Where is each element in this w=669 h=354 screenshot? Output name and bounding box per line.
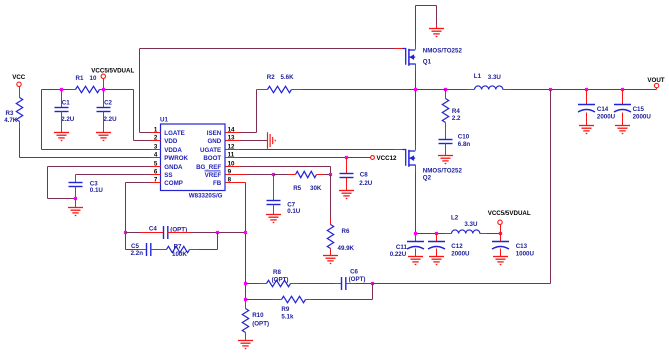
svg-text:C8: C8 — [360, 172, 368, 179]
Q1 drain wire to ground — [416, 6, 437, 50]
C3 ground lead — [75, 199, 77, 208]
svg-text:C15: C15 — [633, 106, 645, 113]
capacitor C6 (OPT) — [342, 277, 346, 290]
R2 value 5.6K — [281, 74, 295, 81]
U1 pin name ISEN — [207, 130, 222, 137]
U1 pin name FB — [213, 180, 222, 187]
C14 designator — [597, 106, 609, 113]
resistor R2 5.6K — [268, 86, 292, 92]
svg-text:5.1k: 5.1k — [281, 313, 294, 320]
junction C12 tap — [435, 232, 438, 235]
svg-text:R1: R1 — [76, 75, 84, 82]
node VCC5/5VDUAL label — [91, 68, 134, 75]
R9 designator — [281, 306, 289, 313]
svg-text:BOOT: BOOT — [203, 155, 221, 162]
R2 designator — [267, 74, 275, 81]
svg-text:VREF: VREF — [205, 172, 222, 179]
wire pin12 UGATE to Q2 gate — [241, 149, 403, 151]
C12 bottom lead — [436, 249, 438, 257]
terminal VCC5/5VDUAL — [101, 74, 105, 78]
capacitor C8 2.2U — [340, 174, 354, 178]
C2 top lead — [103, 90, 105, 108]
capacitor C4 (OPT) — [164, 226, 168, 239]
R6 value 49.9K — [338, 245, 355, 252]
svg-text:L1: L1 — [474, 73, 482, 80]
svg-text:LGATE: LGATE — [164, 130, 185, 137]
C6 designator — [350, 269, 358, 276]
wire pin13 GND — [241, 140, 268, 142]
node VCC5/5VDUAL bottom label — [488, 210, 531, 217]
ground C1 — [54, 133, 69, 141]
svg-text:C10: C10 — [458, 134, 470, 141]
C3 designator — [90, 180, 98, 187]
U1 pin number 8 — [228, 177, 232, 184]
svg-text:R6: R6 — [342, 228, 350, 235]
U1 right pin stubs 14-8 — [226, 133, 241, 183]
C15 designator — [633, 106, 645, 113]
svg-text:R3: R3 — [6, 110, 14, 117]
ground C11 — [408, 257, 423, 265]
svg-text:49.9K: 49.9K — [338, 245, 355, 252]
U1 reference designator — [160, 116, 168, 123]
resistor R4 2.2 — [442, 99, 448, 123]
svg-text:C1: C1 — [62, 100, 70, 107]
svg-text:6.8n: 6.8n — [458, 141, 471, 148]
capacitor C12 2000U — [428, 242, 445, 250]
svg-text:R10: R10 — [252, 312, 264, 319]
ground R6 — [323, 256, 338, 264]
resistor R3 4.7K — [16, 98, 22, 122]
R6 designator — [342, 228, 350, 235]
C3 value 0.1U — [90, 187, 104, 194]
svg-text:2000U: 2000U — [633, 114, 652, 121]
svg-text:U1: U1 — [160, 116, 168, 123]
inductor L2 3.3U — [452, 230, 480, 234]
U1 part number W83320S/G — [189, 193, 223, 200]
C1 top lead — [61, 90, 63, 108]
C1 designator — [62, 100, 70, 107]
svg-text:ISEN: ISEN — [207, 130, 222, 137]
junction C1 on rail — [60, 88, 63, 91]
wire FB node to R8 — [246, 283, 267, 285]
U1 pin number 9 — [228, 169, 232, 176]
wire pin7 COMP down — [126, 183, 151, 250]
C1 bottom lead — [61, 112, 63, 133]
U1 pin name LGATE — [164, 130, 185, 137]
U1 pin name VDDA — [164, 147, 182, 154]
svg-text:C6: C6 — [350, 269, 358, 276]
svg-text:10: 10 — [90, 75, 97, 82]
svg-text:(OPT): (OPT) — [272, 276, 289, 283]
R8 value (OPT) — [272, 276, 289, 283]
U1 left pin stubs 1-7 — [151, 133, 161, 183]
wire pin8 FB down — [241, 183, 246, 300]
VCC5 bottom terminal lead — [500, 225, 502, 234]
svg-text:COMP: COMP — [164, 180, 183, 187]
svg-text:0.1U: 0.1U — [90, 187, 104, 194]
C5 designator — [131, 243, 139, 250]
resistor R8 (OPT) — [267, 280, 291, 286]
R10 value (OPT) — [252, 321, 269, 328]
U1 pin name VREF — [205, 172, 222, 179]
C13 bottom lead — [500, 249, 502, 257]
capacitor C7 0.1U — [267, 201, 281, 205]
U1 VREF pin name overline — [205, 170, 221, 172]
capacitor C14 2000U — [578, 105, 595, 113]
svg-text:VCC5/5VDUAL: VCC5/5VDUAL — [91, 68, 134, 75]
C12 designator — [451, 243, 463, 250]
ground C10 — [438, 156, 453, 164]
R3 top lead — [19, 87, 21, 98]
U1 pin name SS — [164, 172, 172, 179]
svg-text:2.2U: 2.2U — [104, 116, 118, 123]
U1 pin number 4 — [154, 152, 158, 159]
svg-text:4.7K: 4.7K — [4, 117, 18, 124]
svg-text:GND: GND — [207, 138, 221, 145]
junction FB R8 node — [244, 282, 247, 285]
svg-text:(OPT): (OPT) — [349, 276, 366, 283]
Q2 drain wire from switch node — [415, 90, 417, 151]
svg-text:5.6K: 5.6K — [281, 74, 295, 81]
ground C7 — [266, 215, 281, 223]
svg-text:FB: FB — [213, 180, 222, 187]
svg-text:C12: C12 — [451, 243, 463, 250]
wire C4 left lead — [126, 232, 164, 234]
resistor R10 (OPT) — [242, 309, 248, 333]
junction VOUT rail feedback tap — [549, 88, 552, 91]
C11 top lead — [415, 234, 417, 242]
C10 designator — [458, 134, 470, 141]
C7 designator — [287, 202, 295, 209]
R4 to C10 lead — [445, 123, 447, 140]
capacitor C1 2.2U — [55, 108, 69, 112]
svg-text:VDD: VDD — [164, 138, 178, 145]
svg-text:C4: C4 — [149, 226, 157, 233]
junction C2 on rail — [102, 88, 105, 91]
wire C5 to R7 — [151, 249, 167, 251]
svg-text:R2: R2 — [267, 74, 275, 81]
svg-text:R4: R4 — [452, 108, 460, 115]
C6 value (OPT) — [349, 276, 366, 283]
ground C3 node — [68, 208, 83, 216]
C15 top lead — [622, 90, 624, 105]
wire C4 right lead — [168, 232, 246, 234]
C8 value 2.2U — [359, 180, 373, 187]
ground C2 — [96, 133, 111, 141]
C7 top lead — [273, 175, 275, 201]
C1 value 2.2U — [61, 116, 75, 123]
ground Q1 drain — [429, 29, 444, 37]
svg-text:NMOS/TO252: NMOS/TO252 — [423, 48, 463, 55]
svg-text:2.2: 2.2 — [452, 115, 461, 122]
junction C14 tap — [585, 88, 588, 91]
junction L2 rail at Q2 source — [414, 232, 417, 235]
svg-text:3.3U: 3.3U — [488, 74, 502, 81]
capacitor C13 1000U — [492, 242, 509, 250]
C11 bottom lead — [415, 249, 417, 257]
R10 bottom lead — [245, 333, 247, 341]
wire L1 to VOUT — [503, 89, 657, 91]
R1 designator — [76, 75, 84, 82]
C2 designator — [104, 100, 112, 107]
wire C5 left lead — [126, 249, 147, 251]
wire pin1 LGATE to Q1 gate — [140, 49, 403, 133]
ground pin13 GND — [268, 132, 276, 149]
wire R5 to BG_REF node — [317, 174, 331, 176]
wire pin9 VREF — [241, 174, 274, 176]
capacitor C5 2.2n — [147, 243, 151, 256]
VOUT terminal stub — [656, 88, 658, 90]
R8 designator — [273, 269, 281, 276]
C14 top lead — [586, 90, 588, 105]
svg-text:0.1U: 0.1U — [287, 208, 301, 215]
C3 bottom lead — [75, 187, 77, 199]
Q1 part label NMOS/TO252 — [423, 48, 463, 55]
wire pin6 SS to C3 — [76, 175, 151, 183]
svg-text:2000U: 2000U — [597, 114, 616, 121]
terminal VCC5/5VDUAL bottom — [498, 220, 502, 224]
U1 pin name GND — [207, 138, 221, 145]
U1 pin number 2 — [154, 135, 158, 142]
C8 bottom lead — [346, 178, 348, 191]
C10 bottom lead — [445, 144, 447, 156]
U1 pin number 10 — [228, 161, 235, 168]
svg-text:R9: R9 — [281, 306, 289, 313]
junction FB and C4 line — [244, 231, 247, 234]
junction COMP C4 branch — [124, 231, 127, 234]
U1 pin number 11 — [228, 152, 235, 159]
svg-text:W83320S/G: W83320S/G — [189, 193, 223, 200]
wire L2 to VCC5 node — [480, 233, 501, 235]
svg-text:3.3U: 3.3U — [464, 221, 478, 228]
capacitor C11 0.22U — [407, 242, 424, 250]
C15 value 2000U — [633, 114, 652, 121]
svg-text:VCC12: VCC12 — [377, 155, 398, 162]
junction VCC5 C13 tap — [499, 232, 502, 235]
ground C15 — [615, 126, 630, 134]
Q2 designator — [423, 175, 432, 182]
R10 top lead — [245, 300, 247, 309]
svg-text:UGATE: UGATE — [200, 147, 221, 154]
U1 pin number 7 — [154, 177, 158, 184]
U1 pin number 3 — [154, 144, 158, 151]
C8 top lead — [346, 158, 348, 174]
C11 designator — [396, 244, 408, 251]
svg-text:VDDA: VDDA — [164, 147, 182, 154]
wire node to R6 — [330, 175, 332, 225]
Q1 designator — [423, 58, 432, 65]
R10 designator — [252, 312, 264, 319]
C14 bottom lead — [586, 113, 588, 126]
junction C3 ground node — [74, 197, 77, 200]
wire FB node to R9 — [246, 299, 282, 301]
junction C7 tap on VREF — [272, 173, 275, 176]
inductor L1 3.3U — [475, 86, 503, 90]
wire pin10 BG_REF to node — [241, 167, 331, 175]
C14 value 2000U — [597, 114, 616, 121]
svg-text:C2: C2 — [104, 100, 112, 107]
svg-text:C13: C13 — [516, 243, 528, 250]
capacitor C2 2.2U — [97, 108, 111, 112]
wire R3 to pin4 PWROK — [20, 122, 151, 158]
wire R4 tap to L1 — [446, 89, 475, 91]
junction R5 R6 BG_REF node — [329, 173, 332, 176]
svg-text:(OPT): (OPT) — [252, 321, 269, 328]
ground R10 — [238, 341, 253, 349]
svg-text:100K: 100K — [172, 251, 187, 258]
R7 designator — [174, 243, 182, 250]
C2 bottom lead — [103, 112, 105, 133]
resistor R7 100K — [167, 246, 190, 252]
junction FB R9 R10 node — [244, 298, 247, 301]
C7 value 0.1U — [287, 208, 301, 215]
junction C8 tap — [345, 156, 348, 159]
svg-text:2000U: 2000U — [451, 251, 470, 258]
C13 designator — [516, 243, 528, 250]
R4 top lead — [445, 90, 447, 99]
wire R7 to C4 line — [190, 233, 218, 250]
capacitor C15 2000U — [614, 105, 631, 113]
junction output divider node — [371, 282, 374, 285]
junction R4 tap on switch rail — [444, 88, 447, 91]
wire VOUT rail down to divider node — [373, 90, 551, 284]
R1 value 10 — [90, 75, 97, 82]
C4 value (OPT) — [170, 227, 187, 234]
junction C15 tap — [621, 88, 624, 91]
C4 designator — [149, 226, 157, 233]
svg-text:0.22U: 0.22U — [390, 251, 407, 258]
wire VCC5 node to pin2 VDD — [104, 90, 151, 141]
Q2 source wire to L2 rail — [415, 165, 417, 234]
U1 pin name GNDA — [164, 164, 183, 171]
resistor R1 10 — [76, 86, 100, 92]
C5 value 2.2n — [131, 250, 144, 257]
wire R1 to VCC5 node — [100, 89, 104, 91]
capacitor C10 6.8n — [439, 140, 453, 144]
svg-text:R7: R7 — [174, 243, 182, 250]
wire pin14 ISEN to R2 — [241, 90, 268, 133]
C10 value 6.8n — [458, 141, 471, 148]
wire VCC5 terminal lead — [103, 79, 105, 90]
wire left rail to C1/R1 — [42, 89, 76, 91]
U1 pin name VDD — [164, 138, 178, 145]
resistor R9 5.1k — [282, 296, 306, 302]
junction switch node at Q1 source — [414, 88, 417, 91]
svg-text:R8: R8 — [273, 269, 281, 276]
svg-text:BG_REF: BG_REF — [196, 164, 221, 171]
R6 bottom lead — [330, 249, 332, 256]
U1 pin number 5 — [154, 161, 158, 168]
ground C8 — [339, 191, 354, 199]
svg-text:C14: C14 — [597, 106, 609, 113]
U1 pin name BOOT — [203, 155, 221, 162]
R4 designator — [452, 108, 460, 115]
C7 bottom lead — [273, 205, 275, 215]
wire C6 to output node — [346, 283, 373, 285]
R7 value 100K — [172, 251, 187, 258]
U1 pin number 13 — [228, 135, 235, 142]
svg-text:2.2U: 2.2U — [359, 180, 373, 187]
U1 pin name COMP — [164, 180, 183, 187]
R4 value 2.2 — [452, 115, 461, 122]
R3 value 4.7K — [4, 117, 18, 124]
capacitor C3 0.1U — [69, 183, 83, 187]
node VCC12 label — [377, 155, 398, 162]
U1 pin number 12 — [228, 144, 235, 151]
ground C12 — [429, 257, 444, 265]
R3 designator — [6, 110, 14, 117]
ground C14 — [579, 126, 594, 134]
svg-text:PWROK: PWROK — [164, 155, 188, 162]
svg-text:Q2: Q2 — [423, 175, 432, 182]
transistor Q2 NMOS/TO252 — [403, 150, 416, 167]
L1 value 3.3U — [488, 74, 502, 81]
U1 pin name PWROK — [164, 155, 188, 162]
C2 value 2.2U — [104, 116, 118, 123]
wire R2 to switch node — [292, 89, 416, 91]
svg-text:2.2n: 2.2n — [131, 250, 144, 257]
wire pin5 GNDA to C3 ground node — [48, 167, 151, 199]
C12 value 2000U — [451, 251, 470, 258]
L2 designator — [451, 215, 459, 222]
R9 value 5.1k — [281, 313, 294, 320]
L2 value 3.3U — [464, 221, 478, 228]
U1 pin number 1 — [154, 127, 158, 134]
svg-text:NMOS/TO252: NMOS/TO252 — [423, 167, 463, 174]
C12 top lead — [436, 234, 438, 242]
resistor R5 30K — [296, 171, 317, 177]
Q1 source lead to switch rail — [415, 64, 417, 90]
wire left rail down to pin3 VDDA — [42, 90, 151, 150]
terminal VOUT — [654, 83, 658, 87]
terminal VCC — [17, 82, 21, 86]
node VCC label — [12, 74, 26, 81]
wire L2 rail left — [416, 233, 452, 235]
wire VREF node to R5 — [274, 174, 296, 176]
R5 value 30K — [310, 185, 322, 192]
wire R9 to output node — [306, 284, 373, 300]
wire pin11 BOOT to VCC12 — [241, 157, 371, 159]
svg-text:L2: L2 — [451, 215, 459, 222]
svg-text:30K: 30K — [310, 185, 322, 192]
U1 pin name UGATE — [200, 147, 221, 154]
Q2 part label NMOS/TO252 — [423, 167, 463, 174]
C15 bottom lead — [622, 113, 624, 126]
svg-text:1000U: 1000U — [516, 251, 535, 258]
wire R8 to C6 — [291, 283, 342, 285]
C8 designator — [360, 172, 368, 179]
L1 designator — [474, 73, 482, 80]
C11 value 0.22U — [390, 251, 407, 258]
svg-text:Q1: Q1 — [423, 58, 432, 65]
C13 top lead — [500, 234, 502, 242]
svg-text:GNDA: GNDA — [164, 164, 183, 171]
IC U1 W83320S/G controller body — [161, 124, 226, 191]
node VOUT label — [647, 77, 664, 84]
junction R7 branch rejoin — [216, 231, 219, 234]
terminal VCC12 — [371, 156, 375, 160]
svg-text:2.2U: 2.2U — [61, 116, 75, 123]
U1 pin number 14 — [228, 127, 235, 134]
ground C13 — [493, 257, 508, 265]
U1 pin name BG_REF — [196, 164, 221, 171]
transistor Q1 NMOS/TO252 — [403, 49, 416, 66]
svg-text:VCC5/5VDUAL: VCC5/5VDUAL — [488, 210, 531, 217]
svg-text:R5: R5 — [293, 185, 301, 192]
wire switch node to R4 tap — [416, 89, 446, 91]
C13 value 1000U — [516, 251, 535, 258]
svg-text:SS: SS — [164, 172, 172, 179]
